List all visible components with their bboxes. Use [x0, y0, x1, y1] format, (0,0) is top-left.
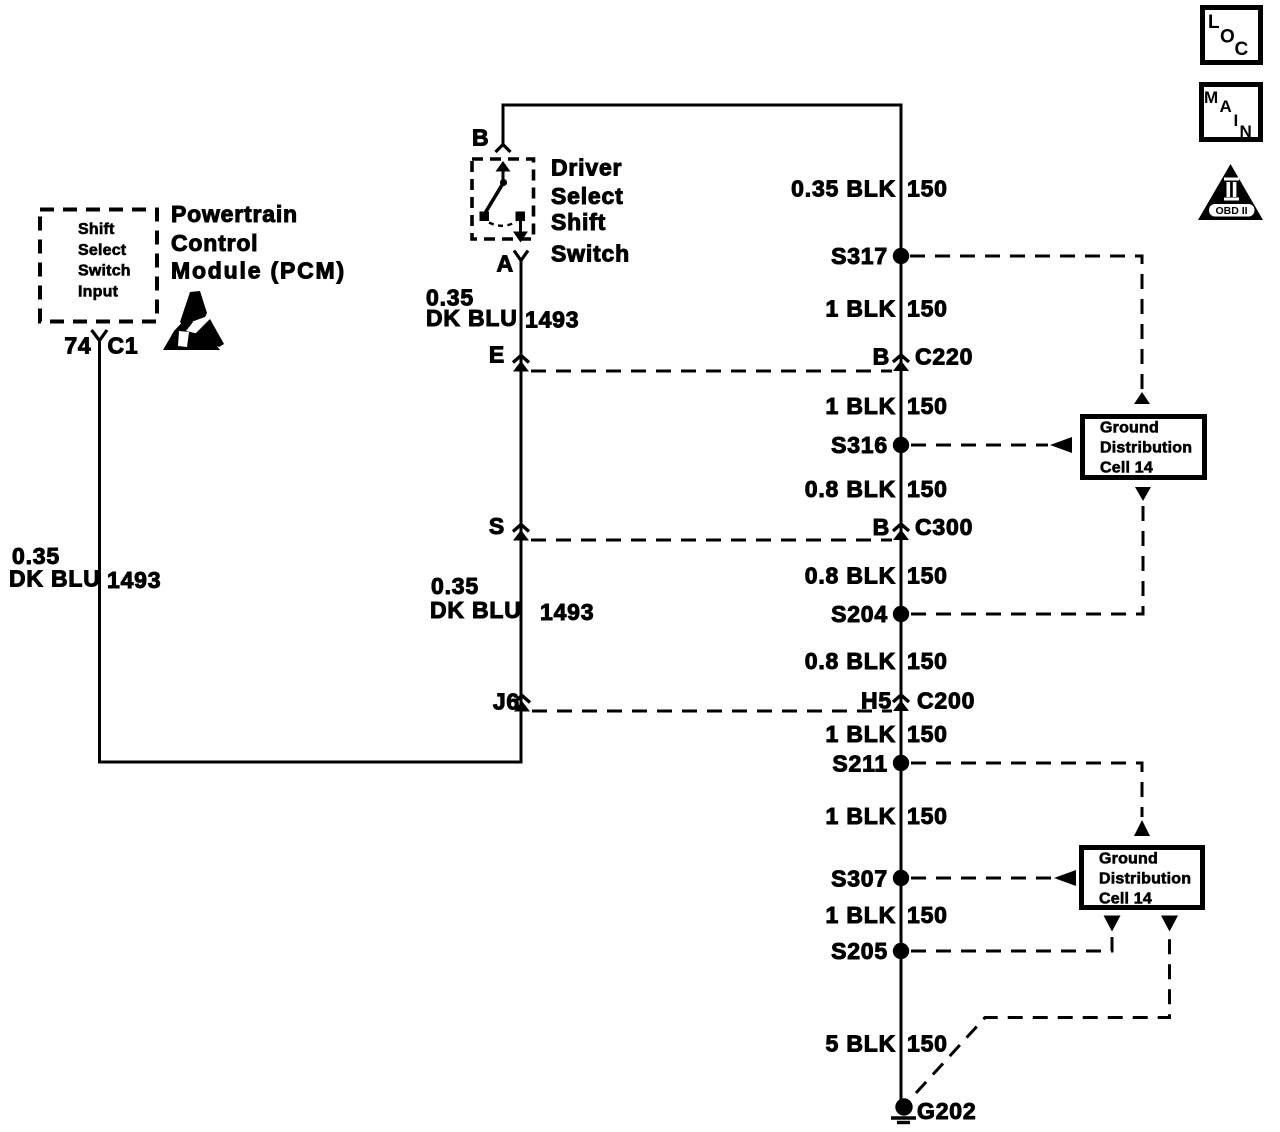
svg-text:DK BLU: DK BLU — [426, 305, 518, 331]
svg-text:A: A — [497, 251, 514, 277]
svg-text:C300: C300 — [915, 514, 973, 540]
svg-text:J6: J6 — [493, 689, 520, 715]
svg-text:150: 150 — [907, 176, 948, 202]
svg-text:0.35: 0.35 — [431, 573, 479, 599]
svg-text:Cell 14: Cell 14 — [1100, 460, 1153, 477]
svg-text:Control: Control — [171, 230, 258, 256]
svg-text:150: 150 — [907, 296, 948, 322]
svg-text:Module (PCM): Module (PCM) — [171, 258, 346, 284]
svg-text:C200: C200 — [917, 688, 975, 714]
svg-text:1493: 1493 — [525, 307, 579, 333]
svg-text:74: 74 — [64, 333, 91, 359]
svg-text:Select: Select — [78, 242, 127, 259]
svg-text:B: B — [873, 344, 890, 370]
svg-text:S211: S211 — [832, 751, 888, 777]
svg-text:150: 150 — [907, 902, 948, 928]
svg-text:M: M — [1204, 88, 1218, 107]
svg-text:0.35 BLK: 0.35 BLK — [791, 176, 896, 202]
svg-text:150: 150 — [907, 803, 948, 829]
svg-text:Distribution: Distribution — [1099, 871, 1191, 888]
svg-text:150: 150 — [907, 1031, 948, 1057]
svg-text:S205: S205 — [831, 938, 888, 964]
svg-text:O: O — [1220, 27, 1235, 48]
svg-text:N: N — [1240, 122, 1252, 141]
svg-text:1 BLK: 1 BLK — [826, 902, 896, 928]
svg-text:0.8 BLK: 0.8 BLK — [805, 648, 896, 674]
svg-text:S317: S317 — [831, 243, 888, 269]
svg-text:0.8 BLK: 0.8 BLK — [805, 563, 896, 589]
svg-text:Select: Select — [551, 183, 624, 209]
svg-text:A: A — [1220, 97, 1232, 116]
svg-text:Shift: Shift — [78, 221, 115, 238]
svg-text:5 BLK: 5 BLK — [826, 1031, 896, 1057]
svg-text:S: S — [489, 513, 505, 539]
svg-text:C220: C220 — [915, 344, 973, 370]
svg-text:Input: Input — [78, 284, 119, 301]
svg-text:DK BLU: DK BLU — [430, 597, 522, 623]
svg-text:1 BLK: 1 BLK — [826, 721, 896, 747]
svg-text:Ground: Ground — [1100, 420, 1159, 437]
svg-text:E: E — [489, 342, 505, 368]
svg-text:H5: H5 — [861, 688, 892, 714]
svg-text:1 BLK: 1 BLK — [826, 803, 896, 829]
svg-text:Switch: Switch — [551, 241, 630, 267]
svg-text:Switch: Switch — [78, 263, 131, 280]
svg-text:B: B — [472, 125, 489, 151]
svg-text:0.8 BLK: 0.8 BLK — [805, 476, 896, 502]
svg-text:C: C — [1235, 39, 1249, 60]
svg-text:S307: S307 — [831, 866, 888, 892]
svg-text:1493: 1493 — [540, 599, 594, 625]
svg-text:I: I — [1234, 111, 1239, 130]
svg-text:L: L — [1208, 12, 1220, 33]
svg-text:B: B — [873, 514, 890, 540]
svg-text:Distribution: Distribution — [1100, 440, 1192, 457]
svg-text:OBD II: OBD II — [1215, 205, 1247, 217]
svg-text:150: 150 — [907, 563, 948, 589]
svg-text:150: 150 — [907, 648, 948, 674]
svg-text:150: 150 — [907, 393, 948, 419]
svg-text:Powertrain: Powertrain — [171, 201, 298, 227]
svg-text:Shift: Shift — [551, 209, 606, 235]
svg-text:Ground: Ground — [1099, 851, 1158, 868]
svg-text:1 BLK: 1 BLK — [826, 296, 896, 322]
svg-text:Cell 14: Cell 14 — [1099, 891, 1152, 908]
svg-text:G202: G202 — [917, 1098, 976, 1124]
svg-text:S204: S204 — [831, 601, 888, 627]
svg-text:150: 150 — [907, 721, 948, 747]
svg-text:150: 150 — [907, 476, 948, 502]
svg-text:S316: S316 — [831, 432, 888, 458]
svg-text:Driver: Driver — [551, 155, 622, 181]
svg-text:C1: C1 — [108, 333, 139, 359]
svg-text:1 BLK: 1 BLK — [826, 393, 896, 419]
svg-text:1493: 1493 — [107, 567, 161, 593]
svg-text:DK BLU: DK BLU — [9, 566, 101, 592]
